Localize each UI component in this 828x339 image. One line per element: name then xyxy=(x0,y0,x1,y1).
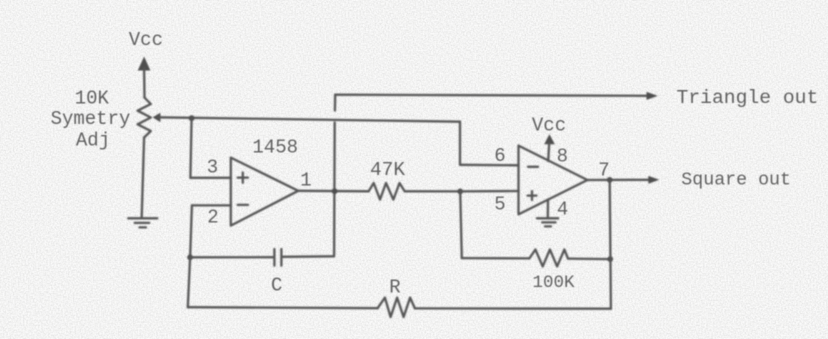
svg-text:100K: 100K xyxy=(532,273,575,293)
svg-text:Vcc: Vcc xyxy=(532,115,566,137)
wire pot bottom to ground xyxy=(142,138,144,218)
resistor 100K zigzag xyxy=(529,250,568,267)
svg-text:47K: 47K xyxy=(370,159,405,181)
node E junction dot (100K right) xyxy=(607,256,613,262)
node B junction dot (C node) xyxy=(187,254,193,260)
Vcc supply arrow (left) xyxy=(138,57,151,98)
wire C node down to bottom rail xyxy=(188,257,190,307)
minus sign U1A xyxy=(238,204,248,206)
wire pin 3 horizontal xyxy=(190,177,231,179)
op-amp U1B 1458 triangle xyxy=(519,146,588,215)
wire 100K left lead xyxy=(462,257,530,260)
resistor R zigzag xyxy=(378,298,415,317)
svg-text:10K: 10K xyxy=(75,88,110,110)
wire bottom rail left xyxy=(188,307,378,308)
wire C right lead xyxy=(283,255,334,258)
wire feedback vertical right xyxy=(610,180,611,309)
svg-text:3: 3 xyxy=(207,156,218,178)
svg-text:Symetry: Symetry xyxy=(51,108,131,130)
node F junction dot (output 2 node) xyxy=(607,177,613,183)
minus sign U1B xyxy=(528,166,538,168)
wire bottom rail right xyxy=(415,307,611,310)
node C junction dot (output node) xyxy=(332,188,338,194)
wire pin 2 horizontal xyxy=(192,204,231,206)
wire 47K to pin5 node xyxy=(405,190,461,192)
ground (op-amp 2 pin 4) xyxy=(537,200,558,227)
plus sign U1A xyxy=(238,173,248,183)
wire output vertical (with crossover gap) xyxy=(334,95,335,257)
wire 100K right lead xyxy=(568,257,610,260)
wire pin 5 horizontal xyxy=(460,190,518,193)
svg-text:2: 2 xyxy=(207,207,218,229)
svg-text:Triangle out: Triangle out xyxy=(677,87,819,109)
potentiometer R1 10K Symetry Adj (zigzag body) xyxy=(138,98,151,138)
wire pin 2 down to C node xyxy=(190,205,192,257)
plus sign U1B xyxy=(528,191,537,200)
wire pot line down to pin 6 xyxy=(459,122,461,165)
resistor 47K zigzag xyxy=(369,183,405,200)
svg-text:5: 5 xyxy=(494,194,505,216)
svg-text:R: R xyxy=(389,277,400,299)
wire pin 6 horizontal xyxy=(460,164,519,167)
svg-text:7: 7 xyxy=(598,159,609,181)
capacitor C plates xyxy=(274,249,281,266)
wire op-amp2 output xyxy=(587,176,659,184)
ground (left) xyxy=(128,218,157,227)
potentiometer wiper arrow xyxy=(153,113,460,122)
svg-text:Adj: Adj xyxy=(76,130,110,152)
svg-text:1458: 1458 xyxy=(252,136,298,158)
svg-text:4: 4 xyxy=(557,198,568,220)
wire triangle out horizontal xyxy=(335,92,658,100)
svg-text:Square out: Square out xyxy=(681,171,791,191)
svg-text:C: C xyxy=(271,275,282,297)
wire op-amp1 output xyxy=(298,190,368,193)
svg-text:Vcc: Vcc xyxy=(129,29,163,51)
svg-text:8: 8 xyxy=(557,145,568,167)
node D junction dot (pin 5 node) xyxy=(457,189,463,195)
wire node A down to pin 3 xyxy=(190,118,191,178)
wire pin5 node down to 100K xyxy=(460,191,462,258)
svg-text:6: 6 xyxy=(494,145,505,167)
node A junction dot (wiper node) xyxy=(189,115,195,121)
wire C left lead xyxy=(190,256,273,258)
svg-text:1: 1 xyxy=(300,170,311,192)
Vcc supply arrow (op-amp 2 pin 8) xyxy=(544,134,555,161)
op-amp U1A 1458 triangle xyxy=(231,158,298,226)
